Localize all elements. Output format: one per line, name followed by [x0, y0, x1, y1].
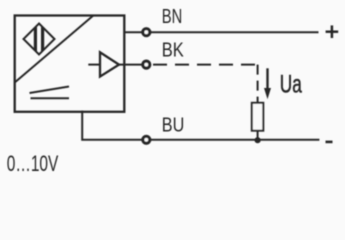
plus terminal [326, 30, 339, 33]
diagonal divider inside box [15, 16, 93, 83]
minus terminal [326, 141, 333, 144]
svg-text:0…10V: 0…10V [7, 151, 59, 176]
resistor bottom stub [257, 131, 259, 140]
wire BK stub: box edge to terminal [119, 64, 146, 66]
dashed wire from BK terminal to load [153, 64, 258, 66]
junction dot [255, 137, 261, 143]
wire BN: box to + [124, 31, 319, 33]
amplifier triangle [88, 64, 100, 66]
wire BU: from box bottom down and right to - [82, 111, 319, 140]
Ua arrow [266, 68, 268, 89]
load resistor [252, 103, 263, 131]
terminal circle BU [143, 136, 150, 143]
svg-text:BN: BN [162, 6, 183, 28]
dashed wire corner down to resistor [257, 65, 259, 103]
svg-text:Ua: Ua [280, 71, 302, 99]
inductive sensing-face diamond [24, 24, 55, 55]
svg-text:BU: BU [162, 115, 185, 137]
terminal circle BN [143, 29, 150, 36]
terminal circle BK [143, 61, 150, 68]
svg-text:BK: BK [162, 40, 185, 62]
analog output symbol (slanted + straight line) [30, 87, 70, 94]
sensor body box [15, 16, 125, 112]
